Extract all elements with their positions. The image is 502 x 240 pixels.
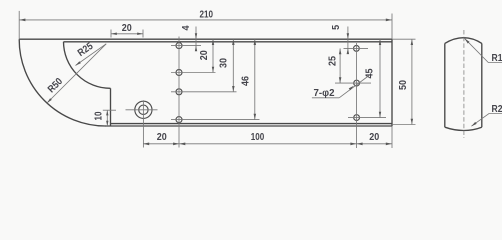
arrow 45 down — [379, 112, 381, 118]
arrow 20 down — [212, 67, 214, 73]
hole left column 4 — [176, 117, 182, 123]
arrow bottom at right column pointing right — [350, 143, 356, 146]
svg-text:7-φ2: 7-φ2 — [314, 88, 335, 99]
bottom edge tangent line — [111, 123, 393, 125]
arrow 50 down — [411, 119, 414, 125]
extension tick step line for 20 top dim — [110, 30, 112, 38]
leader R2 — [471, 114, 502, 127]
arrow R25 leader — [76, 61, 81, 65]
hole right column top — [354, 46, 360, 52]
side view left edge — [444, 43, 446, 127]
arrow 4 up at hole centerline — [195, 46, 197, 52]
arrow 30 down — [232, 86, 235, 92]
dim line 10 vertical — [106, 110, 108, 126]
arrow 30 up — [232, 39, 235, 45]
arrow 210 right — [386, 19, 392, 22]
counterbore hole inner circle — [139, 105, 148, 114]
arrow 10 up — [106, 110, 108, 115]
leader line R25 — [76, 44, 107, 66]
arrow 46 down — [254, 114, 257, 120]
extension line top right for 50 — [392, 38, 416, 40]
svg-text:20: 20 — [122, 23, 132, 34]
svg-text:5: 5 — [331, 25, 342, 30]
centerline counterbore vertical — [142, 100, 144, 147]
arrow 50 up — [411, 39, 414, 45]
dimension line 30 vertical — [232, 39, 234, 92]
svg-text:20: 20 — [199, 50, 210, 60]
svg-text:50: 50 — [398, 80, 409, 90]
arrow 20 up — [212, 39, 214, 45]
hole left column 3 — [176, 89, 182, 95]
right edge of plate — [391, 39, 393, 126]
top edge tangent line (bend edge) — [64, 41, 393, 43]
svg-text:46: 46 — [241, 76, 252, 86]
bottom edge outer line — [105, 125, 392, 127]
centerline hole L3 — [171, 91, 237, 93]
arrow 4 down at top edge — [195, 33, 197, 39]
hole right column middle — [354, 80, 360, 86]
arrow R50 leader — [47, 98, 52, 103]
centerline hole L2 — [171, 72, 216, 74]
side view center line dashed — [463, 30, 465, 138]
dimension line 4 — [195, 27, 197, 52]
hole left column 1 — [176, 43, 182, 49]
leader diagonal 7-phi2 through hole — [339, 76, 369, 98]
arrow 5 down at top edge — [347, 33, 350, 39]
centerline hole R-middle — [335, 82, 371, 84]
svg-text:210: 210 — [200, 10, 214, 21]
centerline counterbore horizontal — [126, 109, 158, 111]
arrow R2 — [471, 122, 476, 126]
leader R1 — [465, 39, 502, 63]
centerline hole L4 extension to 46 dim — [171, 119, 260, 121]
svg-text:4: 4 — [181, 25, 192, 30]
arrow 20top left — [111, 33, 117, 36]
side view bottom dish R2 — [445, 127, 482, 130]
arrow 10 down — [106, 121, 108, 126]
centerline left hole column — [178, 37, 180, 148]
centerline hole L1 — [171, 45, 201, 47]
side view right edge — [481, 43, 483, 127]
dimension line 45 vertical — [379, 39, 381, 117]
svg-text:30: 30 — [218, 58, 229, 68]
arrow R1 — [465, 39, 470, 44]
dimension line 210 — [19, 19, 392, 21]
extension line right edge for 210 — [391, 14, 393, 40]
svg-text:R2: R2 — [492, 104, 502, 115]
bottom chain dimension line — [143, 143, 392, 145]
svg-text:10: 10 — [93, 111, 104, 120]
svg-text:100: 100 — [251, 132, 265, 143]
leader underline 7-phi2 — [312, 97, 339, 99]
dimension line 25 vertical — [339, 48, 341, 83]
extension line bottom right for 50 — [392, 124, 416, 126]
centerline right hole column — [356, 43, 358, 148]
hole right column bottom — [354, 115, 360, 121]
svg-text:20: 20 — [369, 132, 379, 143]
arrow bottom at left column pointing right — [173, 143, 179, 146]
R50 outer arc left end — [19, 39, 105, 126]
extension line left corner for 210 — [18, 11, 20, 39]
extension tick counterbore for 20 top dim — [142, 30, 144, 38]
side view top dome R1 — [445, 38, 482, 44]
R25 inner arc left end — [64, 42, 111, 89]
svg-text:R1: R1 — [492, 53, 502, 64]
arrow 46 up — [254, 39, 257, 45]
step vertical edge — [110, 88, 112, 126]
svg-text:25: 25 — [327, 56, 338, 66]
arrow bottom at right edge pointing right — [386, 143, 392, 146]
dimension line 5 — [347, 27, 349, 54]
arrow 5 up at hole R-top — [347, 49, 350, 55]
arrow 7-phi2 leader — [349, 86, 354, 91]
hole left column 2 — [176, 70, 182, 76]
arrow 25 up — [339, 49, 342, 55]
centerline hole R-top — [344, 47, 369, 49]
top edge outer line of plate — [19, 38, 392, 40]
arrow 210 left — [19, 19, 25, 22]
centerline hole R-bottom extension to 45 dim — [348, 117, 386, 119]
leader line R50 — [47, 44, 106, 103]
arrow bottom at counterbore pointing left — [143, 143, 149, 146]
dimension line 46 vertical — [254, 39, 256, 119]
dimension line 50 vertical — [411, 39, 413, 124]
arrow bottom at left column pointing left — [179, 143, 185, 146]
arrow bottom at right column pointing left — [357, 143, 363, 146]
extension line right edge down for bottom dims — [391, 126, 393, 148]
arrow 20top right — [137, 33, 143, 36]
counterbore hole outer circle — [135, 101, 152, 118]
extension tick for 10 dim — [103, 109, 116, 111]
dimension line 20 top — [111, 33, 143, 35]
arrow 25 down — [339, 77, 342, 83]
svg-text:20: 20 — [157, 132, 167, 143]
svg-text:45: 45 — [365, 68, 376, 78]
arrow 45 up — [379, 39, 381, 45]
dimension line 20 left vertical — [212, 39, 214, 72]
